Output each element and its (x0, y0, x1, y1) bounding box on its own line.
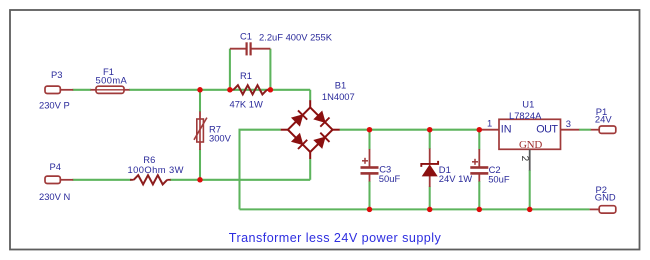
svg-text:P3: P3 (51, 69, 62, 80)
pin 1 (479, 129, 499, 131)
diode B1 top-right (314, 112, 329, 127)
wire bridge top drop (309, 90, 311, 101)
svg-text:100Ohm 3W: 100Ohm 3W (128, 164, 184, 175)
svg-text:1: 1 (487, 118, 492, 129)
wire gnd bus (240, 208, 590, 210)
wire bottom AC rail from P4 to bridge bottom (73, 159, 311, 180)
zener diode D1 (421, 149, 472, 188)
wire C3 vertical (368, 130, 370, 210)
svg-text:1N4007: 1N4007 (322, 91, 355, 102)
bridge rectifier B1 (281, 100, 340, 159)
port P1 (591, 106, 616, 133)
svg-text:2: 2 (519, 156, 530, 162)
wire U1 gnd to bus (529, 170, 531, 209)
svg-text:U1: U1 (522, 99, 534, 110)
varistor R7 (194, 112, 232, 151)
port P3 (39, 69, 73, 111)
resistor R6 (128, 154, 184, 184)
svg-text:C1: C1 (240, 31, 252, 42)
svg-text:P4: P4 (50, 161, 61, 172)
svg-text:GND: GND (519, 139, 542, 151)
wire D1 vertical (429, 130, 431, 210)
svg-text:OUT: OUT (536, 124, 558, 136)
svg-text:L7824A: L7824A (509, 110, 542, 121)
wire C1 branch verticals (230, 49, 271, 90)
svg-text:B1: B1 (335, 79, 346, 90)
svg-text:230V N: 230V N (39, 191, 70, 202)
svg-text:2.2uF 400V 255K: 2.2uF 400V 255K (259, 32, 333, 43)
capacitor C3 (361, 149, 401, 184)
wire U1 out to P1 (579, 129, 591, 131)
svg-text:24V 1W: 24V 1W (439, 173, 472, 184)
capacitor C2 (470, 149, 510, 185)
svg-text:R1: R1 (240, 70, 252, 81)
port P2 (590, 184, 616, 213)
wire dc plus rail bridge right to U1 (340, 129, 480, 131)
capacitor C1 (230, 31, 333, 56)
svg-text:Transformer less 24V power sup: Transformer less 24V power supply (229, 231, 442, 245)
svg-text:3: 3 (566, 118, 571, 129)
svg-text:50uF: 50uF (488, 174, 510, 185)
svg-text:IN: IN (501, 124, 512, 136)
pin 2 (529, 149, 531, 170)
svg-text:50uF: 50uF (379, 173, 401, 184)
svg-text:300V: 300V (209, 132, 232, 143)
svg-text:47K 1W: 47K 1W (230, 98, 263, 109)
fuse F1 (91, 66, 130, 93)
wire R7 branch vertical (199, 90, 201, 180)
wire top rail from P3 to bridge top (73, 89, 311, 91)
diode B1 bottom-right (314, 133, 329, 148)
port P4 (39, 161, 73, 202)
svg-text:GND: GND (595, 192, 616, 203)
diode B1 top-left (292, 110, 307, 125)
pin 3 (561, 129, 580, 131)
junction dot R7 bottom (197, 177, 203, 183)
bridge diamond (288, 107, 333, 152)
svg-text:230V P: 230V P (39, 100, 70, 111)
resistor R1 (230, 70, 271, 109)
regulator U1 (479, 99, 579, 171)
wire bridge left to gnd bus (240, 130, 281, 210)
svg-text:500mA: 500mA (96, 75, 128, 86)
bridge stubs (309, 100, 311, 107)
junction dots dc rail (367, 127, 482, 133)
diode B1 bottom-left (292, 134, 307, 149)
junction dots top rail (197, 87, 273, 93)
svg-text:24V: 24V (595, 114, 612, 125)
junction dots gnd bus (367, 207, 533, 213)
wire C2 vertical (478, 130, 480, 210)
